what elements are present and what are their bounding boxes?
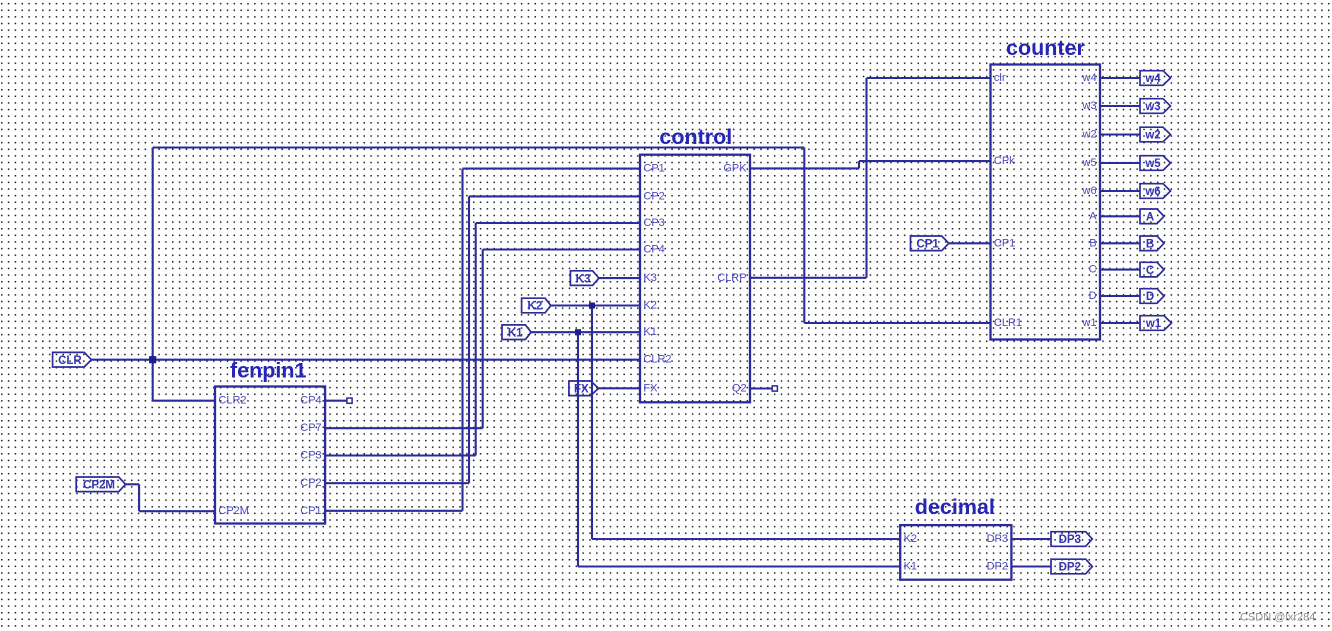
svg-text:CP4: CP4 xyxy=(643,244,664,256)
svg-text:CPk: CPk xyxy=(994,155,1015,167)
input connector CP1 xyxy=(911,236,949,251)
output connector C xyxy=(1140,262,1164,277)
svg-text:CP7: CP7 xyxy=(300,422,321,434)
wire CP3 h xyxy=(325,454,476,456)
svg-text:C: C xyxy=(1146,265,1154,277)
wire CP2 v xyxy=(468,196,470,483)
svg-text:CSDN @lxr284: CSDN @lxr284 xyxy=(1240,612,1315,624)
svg-text:CLR2: CLR2 xyxy=(643,354,671,366)
wire counter output xyxy=(1100,190,1140,192)
wire CP1 v xyxy=(461,169,463,511)
wire K1 drop xyxy=(577,332,579,566)
svg-text:DP2: DP2 xyxy=(987,561,1008,573)
svg-text:DP3: DP3 xyxy=(987,533,1008,545)
svg-text:B: B xyxy=(1146,239,1154,251)
wire GPK jog xyxy=(858,161,860,168)
wire to control CP4 xyxy=(483,248,640,250)
wire CP2 h xyxy=(325,482,469,484)
svg-text:A: A xyxy=(1146,212,1154,224)
wire decimal DP2 xyxy=(1011,565,1051,567)
svg-text:K3: K3 xyxy=(576,273,591,285)
wire to control CP3 xyxy=(476,222,640,224)
svg-text:C: C xyxy=(1089,264,1097,276)
svg-text:K2: K2 xyxy=(904,533,917,545)
wire decimal DP3 xyxy=(1011,538,1051,540)
wire K2 to decimal xyxy=(592,538,900,540)
wire GPK to counter CPk xyxy=(859,160,991,162)
output connector A xyxy=(1140,209,1164,224)
svg-text:A: A xyxy=(1089,210,1097,222)
wire CP1 h xyxy=(325,510,462,512)
svg-text:CLRP: CLRP xyxy=(717,272,746,284)
svg-text:CP3: CP3 xyxy=(300,450,321,462)
input connector K1 xyxy=(502,325,531,340)
wire to control CP1 xyxy=(463,168,641,170)
svg-text:decimal: decimal xyxy=(915,495,995,519)
svg-text:GPK: GPK xyxy=(723,162,747,174)
svg-text:CP4: CP4 xyxy=(300,395,321,407)
wire CP2M to fenpin1 xyxy=(139,510,215,512)
wire CLR to control CLR2 xyxy=(91,359,640,361)
svg-text:fenpin1: fenpin1 xyxy=(230,359,306,383)
svg-text:CLR2: CLR2 xyxy=(218,395,246,407)
wire counter output xyxy=(1100,269,1140,271)
svg-text:CP2: CP2 xyxy=(643,190,664,202)
input connector CLR xyxy=(53,352,92,367)
wire K2 xyxy=(551,304,640,306)
wire FX xyxy=(599,387,641,389)
wire CLR down to CLR1 row xyxy=(803,148,805,324)
output connector DP3 xyxy=(1051,532,1092,547)
svg-text:CP1: CP1 xyxy=(643,163,664,175)
svg-text:CP2: CP2 xyxy=(300,477,321,489)
output connector w4 xyxy=(1140,71,1171,86)
svg-text:K1: K1 xyxy=(508,327,523,339)
wire Q2 stub xyxy=(750,387,772,389)
svg-text:w4: w4 xyxy=(1144,73,1161,85)
wire K2 drop xyxy=(591,306,593,540)
svg-text:K2: K2 xyxy=(643,300,656,312)
svg-text:K1: K1 xyxy=(904,561,917,573)
wire CP7 v xyxy=(482,250,484,429)
svg-text:CP3: CP3 xyxy=(643,217,664,229)
svg-text:w2: w2 xyxy=(1082,129,1097,141)
svg-text:DP2: DP2 xyxy=(1059,562,1081,574)
wire CP1 to counter xyxy=(949,242,991,244)
unconnected terminal CP4 xyxy=(347,398,352,403)
block fenpin1 xyxy=(215,387,325,524)
wire CLR to counter CLR1 xyxy=(804,322,990,324)
svg-text:CP1: CP1 xyxy=(994,237,1015,249)
svg-text:K3: K3 xyxy=(643,272,656,284)
block control xyxy=(640,155,750,403)
svg-text:FX: FX xyxy=(574,384,589,396)
wire to control CP2 xyxy=(469,195,640,197)
wire counter output xyxy=(1100,322,1140,324)
svg-text:DP3: DP3 xyxy=(1059,534,1081,546)
wire CLRP to counter clr xyxy=(867,77,991,79)
input connector K2 xyxy=(522,298,551,313)
output connector DP2 xyxy=(1051,559,1092,574)
wire CP3 v xyxy=(475,223,477,456)
svg-text:w3: w3 xyxy=(1144,101,1160,113)
svg-text:w1: w1 xyxy=(1145,318,1162,330)
wire K3 xyxy=(599,277,640,279)
wire counter output xyxy=(1100,162,1140,164)
input connector K3 xyxy=(570,271,599,286)
svg-text:w4: w4 xyxy=(1082,72,1097,84)
svg-text:D: D xyxy=(1089,290,1097,302)
block counter xyxy=(991,65,1101,340)
svg-text:CP2M: CP2M xyxy=(83,480,115,492)
svg-text:CLR1: CLR1 xyxy=(994,317,1022,329)
wire K1 xyxy=(531,331,640,333)
svg-text:CLR: CLR xyxy=(58,355,82,367)
svg-text:w6: w6 xyxy=(1082,185,1097,197)
junction K2 xyxy=(589,303,595,309)
svg-text:Q2: Q2 xyxy=(732,383,747,395)
wire CP2M h1 xyxy=(126,483,140,485)
wire CP7 h xyxy=(325,427,483,429)
svg-text:w1: w1 xyxy=(1082,317,1097,329)
svg-text:w5: w5 xyxy=(1144,158,1161,170)
output connector w1 xyxy=(1140,316,1172,331)
output connector w6 xyxy=(1140,184,1171,199)
svg-text:w6: w6 xyxy=(1144,186,1160,198)
block decimal xyxy=(900,525,1011,580)
output connector w3 xyxy=(1140,99,1171,114)
svg-text:B: B xyxy=(1089,237,1096,249)
svg-text:CP1: CP1 xyxy=(300,505,321,517)
output connector D xyxy=(1140,289,1164,304)
wire CLRP v xyxy=(865,78,867,278)
wire fenpin1 CP4 stub xyxy=(325,400,347,402)
junction K1 xyxy=(575,329,581,335)
wire counter output xyxy=(1100,133,1140,135)
wire GPK h1 xyxy=(750,167,859,169)
wire counter output xyxy=(1100,242,1140,244)
wire counter output xyxy=(1100,77,1140,79)
svg-text:K2: K2 xyxy=(528,301,543,313)
input connector CP2M xyxy=(76,477,125,492)
svg-text:CP1: CP1 xyxy=(916,239,939,251)
svg-text:K1: K1 xyxy=(643,326,656,338)
svg-text:control: control xyxy=(659,125,732,149)
wire CLR vertical branch xyxy=(152,148,154,401)
wire CLR to fenpin1 CLR2 xyxy=(153,400,215,402)
svg-text:clr: clr xyxy=(994,72,1006,84)
svg-text:counter: counter xyxy=(1006,36,1085,60)
output connector w2 xyxy=(1140,127,1171,142)
svg-text:FX: FX xyxy=(643,382,658,394)
svg-text:D: D xyxy=(1146,291,1154,303)
unconnected terminal Q2 xyxy=(772,386,777,391)
wire CP2M v xyxy=(138,484,140,511)
wire CLRP h1 xyxy=(750,277,867,279)
input connector FX xyxy=(569,381,599,396)
wire counter output xyxy=(1100,215,1140,217)
wire counter output xyxy=(1100,295,1140,297)
svg-text:w2: w2 xyxy=(1144,130,1160,142)
junction CLR node xyxy=(149,356,156,363)
svg-text:w5: w5 xyxy=(1082,157,1097,169)
output connector B xyxy=(1140,236,1164,251)
svg-text:CP2M: CP2M xyxy=(218,505,249,517)
wire CLR top run xyxy=(153,146,805,148)
svg-text:w3: w3 xyxy=(1082,100,1097,112)
wire counter output xyxy=(1100,105,1140,107)
wire K1 to decimal xyxy=(578,565,900,567)
output connector w5 xyxy=(1140,156,1171,171)
